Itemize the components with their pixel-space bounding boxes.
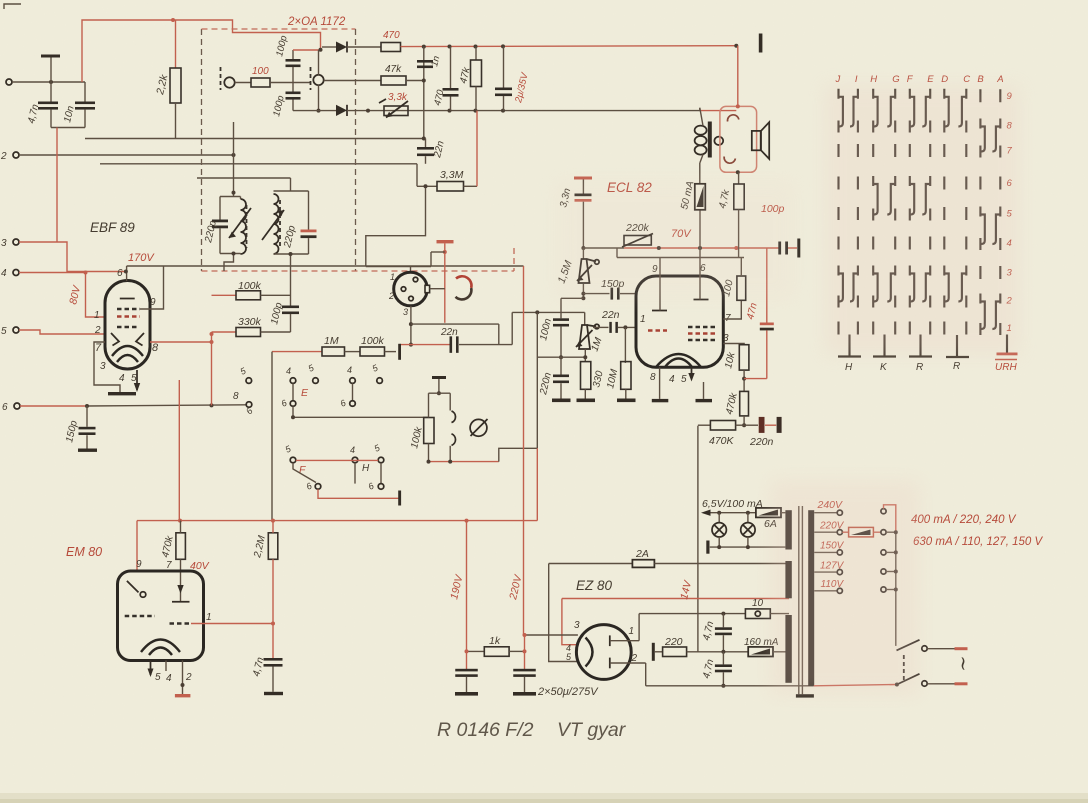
EZ80 plate 2 [609,658,611,669]
PU pin a [413,277,418,282]
tap 150V [814,551,837,553]
svg-text:5: 5 [681,374,687,385]
matrix contact ticks [839,89,1001,335]
transformer winding LV1 [785,510,791,549]
IF2 right bottom rail [274,253,309,255]
svg-text:VT gyar: VT gyar [557,719,627,741]
EBF89 pin8 wire [150,341,212,343]
capacitor 50u b [513,669,536,672]
junction lamp1 top [717,511,721,515]
jack plug symbol [470,419,487,436]
junction top rail 2.2k [171,18,175,22]
wire HT to OPT [699,108,701,111]
junction 1k right [523,649,527,653]
wire HT out rail [639,613,745,615]
EBF89 grid dashes 3 [117,326,138,328]
junction 150p tap [85,404,89,408]
svg-text:H: H [362,463,370,474]
junction 1M-330 [583,355,587,359]
junction 1.5M-100n [581,296,585,300]
resistor 1k [467,650,485,652]
wire 70V rail right [624,247,779,249]
ECL82 pin9 lead [659,258,661,277]
mains terminal upper [955,647,968,650]
selector bus lead 127 [886,571,896,573]
wire terminal 3 [19,242,126,272]
resistor 100k [212,294,237,296]
wire 22n junction riser [366,186,426,266]
speaker magnet [752,131,761,150]
EBF89 top grid bar [120,298,135,300]
wire lamp rail top [703,512,756,514]
junction rail 470cap [448,45,452,49]
resistor 2.2M [268,533,278,560]
ECL82 cathode arc inner [665,359,692,368]
capacitor 220n fb [744,424,758,426]
potentiometer 3.3k [384,106,408,116]
pot 1.5M arrow [577,265,592,281]
wire 190V riser [466,521,468,669]
svg-text:J: J [835,74,841,85]
svg-text:H: H [845,362,853,373]
selector terminal 127 [881,569,886,574]
junction sel 127 [894,570,898,574]
wire coil2 top stub [318,50,320,75]
tube EM80 envelope [118,571,204,661]
wire 220V riser low [524,635,526,669]
IF1 coil right [313,75,323,85]
tap 220V [814,531,837,533]
svg-text:4: 4 [286,366,291,376]
IF1 coil core right dashes [310,67,312,90]
wire 10M riser [624,327,626,363]
svg-text:100: 100 [252,66,269,77]
fuse 6A [756,508,781,518]
470k arrow [177,585,183,594]
junction fb node [742,423,746,427]
svg-text:4: 4 [347,365,352,375]
svg-text:A: A [996,74,1003,85]
svg-text:E: E [301,387,309,399]
resistor 470k em80 [176,533,186,560]
junction lamp2 top [746,511,750,515]
contact F row c1 [290,457,296,463]
terminal 4 [13,270,19,276]
transformer winding LV2 [785,561,791,598]
svg-text:URH: URH [995,362,1017,373]
ECL82 pentode dashes 1 [688,326,716,328]
svg-text:5: 5 [1,326,7,337]
EBF89 bottom arc outer [112,346,143,356]
terminal 2 [13,152,19,158]
svg-text:10: 10 [752,598,764,609]
wire HT red bus [137,520,537,522]
svg-text:1: 1 [94,310,100,321]
wire anode 170V rail [127,265,524,267]
wire 1M bottom [584,349,586,362]
junction pin8 330k [210,332,214,336]
capacitor 22n ecl [593,326,609,328]
EM80 pin2 lead [182,661,184,695]
lamp 1 [718,513,720,523]
resistor 470k vertical [740,391,749,416]
resistor 47k horizontal [324,80,381,82]
ECL82 pin5 arrow [691,367,693,379]
pot 1M [579,325,590,349]
junction lamp2 bottom [746,545,750,549]
IF1 coil core left dashes [220,67,222,90]
scan tint patch matrix [825,85,1020,355]
shield box bottom edge [202,270,515,272]
svg-text:3: 3 [1,238,7,249]
junction 220-4.7n [721,650,725,654]
junction bus 190V [465,519,469,523]
IF2 left coil [241,199,247,254]
capacitor 4.7n em80 [272,624,274,659]
wire PU notch link [430,288,445,290]
svg-text:400 mA / 220, 240 V: 400 mA / 220, 240 V [911,514,1017,526]
svg-text:EBF 89: EBF 89 [90,220,135,235]
svg-text:3: 3 [403,307,408,317]
svg-text:E: E [927,74,934,85]
wire terminal 6 row [20,405,87,407]
pickup crescent [456,276,471,288]
transformer winding HV [785,615,791,683]
chassis bar em80 red [175,694,191,697]
svg-text:G: G [892,74,899,85]
wire detector rail [401,45,737,48]
wire heater drop b [562,599,578,645]
selector terminal 220 [881,530,886,535]
resistor 100k phone [424,418,434,444]
junction ez pin3 [523,633,527,637]
wire speaker feed [737,46,739,107]
wire 100n link [561,297,583,299]
ground bar 150p [78,449,97,452]
svg-text:1: 1 [629,626,635,637]
capacitor 100p upper [292,50,294,59]
switch blade lower [897,674,920,685]
mains terminal lower [955,682,968,685]
EM80 pin4 lead [165,661,167,672]
matrix common K [883,335,885,357]
svg-text:9: 9 [150,297,156,308]
IF1 coil left [224,77,234,87]
resistor 10M [621,362,631,390]
contact E sub1 [290,401,296,407]
switch link dashes [903,655,905,681]
wire AGC riser [56,128,58,243]
capacitor 50u a [455,669,478,672]
svg-text:8: 8 [233,391,239,402]
wire AVC lower [100,163,417,165]
ground bar 50u b [513,692,536,696]
svg-text:R 0146 F/2: R 0146 F/2 [437,719,534,741]
wire 100 to caps [270,82,310,84]
svg-text:3: 3 [723,333,729,344]
wire 1M row to 22n [400,344,450,346]
scan tint patch transformer [770,480,920,695]
contact E row c2 [290,378,296,384]
resistor 4.7k [738,172,740,184]
svg-text:2: 2 [94,325,101,336]
junction 47k node [422,79,426,83]
grid bar F [398,491,401,506]
EZ80 cathode arc [586,638,593,667]
junction em80 pin2 [181,683,185,687]
resistor 10 [745,609,770,619]
wire 100p stub [788,247,797,249]
wire EM80 grid out [191,623,273,625]
OPT core bar [708,122,712,158]
EBF89 pin9 lead [140,266,164,309]
capacitor 47n [766,248,768,323]
svg-text:6: 6 [117,268,123,279]
svg-text:7: 7 [166,560,172,571]
wire OPT link [700,110,736,112]
svg-text:I: I [855,74,858,85]
wire coil2 bottom stub [318,85,320,110]
junction sel 220 [894,530,898,534]
wire phone node [429,392,451,394]
wire EZ80 pin2 down [645,663,647,686]
grid stopper bar [398,344,401,360]
contact E row c5 [377,378,383,384]
svg-text:220n: 220n [749,436,774,448]
resistor 47k vertical [475,47,477,61]
svg-text:6: 6 [2,402,8,413]
junction phone return a [427,460,431,464]
EBF89 cathode chevrons [111,333,144,346]
svg-text:8: 8 [152,342,159,354]
tube ECL82 envelope [636,276,723,367]
wire 22n out [459,344,512,346]
wire bias riser [178,380,180,521]
capacitor 100n [560,298,562,318]
PU socket body [394,272,428,306]
IF2 left cap 220p [219,197,221,220]
ECL82 pentode dashes 3 [688,339,716,341]
contact E row c1 [246,378,252,384]
EM80 target diagonal [127,581,139,593]
wire terminal 2 [19,154,234,156]
junction 22n-3.3M [424,184,428,188]
wire pin8 riser [211,332,213,405]
bottom scan edge band [0,793,1088,803]
wire 100p link [293,49,321,51]
junction 100n-220n [559,355,563,359]
svg-text:5: 5 [131,373,137,384]
wire E common [292,406,294,417]
IF2 right top rail [274,190,309,192]
junction bus 470k [178,519,182,523]
junction grail 2u [501,109,505,113]
terminal 3 [13,239,19,245]
EBF89 bottom arc inner [117,355,138,362]
fuse 50mA [699,163,701,184]
terminal 1 [6,79,12,85]
capacitor 2u/35V [503,46,505,87]
IF2 right bottom stub [290,254,292,306]
scan tint patch ecl [555,180,795,300]
ECL82 pin7 lead [723,300,741,319]
matrix common R1 [919,335,921,357]
resistor 330 [581,362,591,390]
jack contact lower [452,434,456,446]
capacitor 22n agc [422,137,426,141]
fuse 160mA [748,647,773,657]
contact F sub2 [378,484,384,490]
ground bar 330 [577,399,596,403]
speaker coil upper [728,115,739,122]
wire jack lower lead [449,446,451,462]
capacitor 100p lower [292,83,294,92]
matrix contact bridges [839,97,1000,329]
capacitor 220n dec [560,357,562,374]
junction cathode node [742,377,746,381]
junction phone return b [448,460,452,464]
wire 220V riser [523,266,525,635]
EM80 dashes 1 [125,615,155,617]
EBF89 grid dashes 2 [117,315,140,317]
junction phone node [437,391,441,395]
junction rail 2u [501,44,505,48]
resistor 220k [624,236,651,246]
wire mains live [814,685,897,686]
chassis bar lamps [706,541,709,554]
junction pin8 342 [210,340,214,344]
junction PU out [409,322,413,326]
junction E common [291,415,295,419]
speaker box [720,106,757,172]
resistor 220 [655,651,663,653]
wire cap commons [51,127,85,129]
svg-text:EZ 80: EZ 80 [576,578,613,593]
OPT primary coil [695,126,707,135]
junction grail 3.3k [366,109,370,113]
svg-text:330k: 330k [238,316,262,328]
wire F common [318,489,400,498]
svg-text:3: 3 [100,361,106,372]
capacitor 3.3n [582,180,584,194]
capacitor 100p mid [282,306,299,309]
svg-text:2×OA 1172: 2×OA 1172 [287,16,346,28]
wire heater red [562,598,789,600]
pot 1M arrow [576,330,593,347]
svg-text:1: 1 [640,314,646,325]
resistor 100k af [360,347,385,356]
svg-text:22n: 22n [440,327,458,338]
resistor 470k horizontal [698,424,711,426]
terminal 6 [14,403,20,409]
contact circle 8/6 [246,402,252,408]
selector bus lead 110 [886,589,896,591]
svg-text:3,3M: 3,3M [440,169,464,181]
selector bus lead 150 [886,551,896,553]
wire terminal 5 [19,330,106,334]
ground bar ecl b [696,399,713,402]
transformer core [798,506,800,694]
svg-text:47k: 47k [385,64,402,75]
svg-text:R: R [916,362,923,373]
wire cathode to 47n [744,378,767,380]
svg-text:100k: 100k [238,280,262,292]
jack contact upper [452,411,456,423]
diode D2 [336,105,347,116]
junction grail 470cap [448,109,452,113]
svg-text:8: 8 [650,372,656,383]
ECL82 pin3 lead [723,344,744,345]
svg-text:2A: 2A [635,548,649,560]
junction terminal4 corner [84,271,88,275]
EM80 cathode arc inner [149,648,172,656]
ground bar 4.7n [264,692,283,695]
junction pin8 riser [210,403,214,407]
capacitor phone top bar [432,376,446,379]
shield box top edge [202,28,356,30]
EZ80 plate 1 [609,635,611,646]
svg-text:1: 1 [390,272,395,282]
svg-text:100k: 100k [361,335,385,347]
wire feedback drop [697,426,699,652]
wire heater drop a [549,564,577,662]
svg-text:1: 1 [206,612,212,623]
wire EZ80 pin3 [525,634,578,636]
ground bar 50u a [455,692,478,696]
junction rail x659 [657,246,661,250]
junction speaker bottom [736,170,740,174]
junction coil2 top [319,48,323,52]
ECL82 pin8 lead [659,367,661,399]
ECL82 triode plate bar [652,310,667,312]
capacitor 150p ecl [583,293,609,295]
resistor 100 [251,78,270,87]
svg-text:170V: 170V [128,252,155,264]
tube EBF89 envelope [105,281,150,370]
PU pin c [409,296,414,301]
EM80 cathode arc outer [141,640,180,653]
wire 10 to OPT [770,613,789,615]
wire selector bus [895,532,897,646]
junction lamp1 bottom [717,545,721,549]
junction rail 100p [734,246,738,250]
speaker cone [761,122,769,159]
capacitor 4.7n [50,58,52,102]
PU notch [425,285,430,292]
page corner scan mark [4,4,21,9]
matrix common H [848,335,850,357]
cap bar 220 [652,643,655,661]
junction PU cap [443,250,447,254]
IF2 right coil arrow [262,210,284,240]
EM80 dashes 2 [170,622,192,624]
shield box left edge [201,29,203,271]
shield box right edge [355,29,357,271]
resistor 100 ecl [737,276,746,300]
EBF89 pin6 lead [126,266,128,281]
contact E row c3 [313,378,319,384]
svg-text:2: 2 [0,151,7,162]
ECL82 cathode arc outer [656,354,701,367]
contact F row c3 [378,457,384,463]
junction rail pin6 [698,246,702,250]
wire 330 link [537,356,585,358]
speaker coil lower [724,157,735,164]
wire EZ80 pin1 up [638,614,640,641]
pot 1.5M [582,248,584,259]
terminal 5 [13,327,19,333]
ECL82 triode grid dashes [648,329,667,331]
